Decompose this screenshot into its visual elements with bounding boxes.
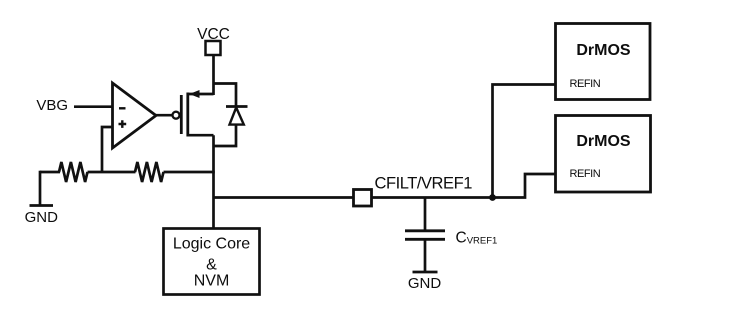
svg-text:NVM: NVM bbox=[194, 273, 230, 290]
svg-text:&: & bbox=[206, 257, 217, 274]
transistor Q1 source arrow bbox=[189, 90, 199, 98]
svg-text:Logic Core: Logic Core bbox=[173, 236, 250, 253]
wire CFILT pin to junction bbox=[372, 196, 493, 199]
svg-text:GND: GND bbox=[408, 275, 442, 292]
wire capacitor to ground bbox=[424, 239, 427, 271]
wire left end down to ground bbox=[39, 171, 42, 206]
resistor R2 bbox=[135, 162, 164, 182]
op-amp plus sign bbox=[119, 120, 127, 128]
wire R2 to drain node bbox=[164, 171, 215, 174]
op-amp minus sign bbox=[119, 107, 126, 109]
svg-text:DrMOS: DrMOS bbox=[576, 133, 631, 150]
svg-text:GND: GND bbox=[25, 209, 59, 226]
transistor Q1 gate bar bbox=[180, 95, 183, 134]
capacitor CVREF1 top plate bbox=[405, 229, 445, 232]
DrMOS box 2 bbox=[556, 116, 651, 193]
op-amp U1 triangle bbox=[113, 83, 157, 148]
wire VBG to op-amp inverting input bbox=[74, 105, 113, 108]
wire source node to diode cathode branch bbox=[214, 84, 237, 108]
DrMOS box 1 bbox=[556, 24, 651, 100]
wire op-amp output to gate bubble bbox=[155, 114, 172, 117]
transistor Q1 channel bar bbox=[186, 93, 189, 137]
wire R1 to R2 (feedback node) bbox=[88, 171, 136, 174]
capacitor CVREF1 bottom plate bbox=[405, 238, 445, 241]
wire drain node down to Logic Core box bbox=[212, 135, 215, 229]
svg-text:CFILT/VREF1: CFILT/VREF1 bbox=[375, 175, 473, 193]
diode D1 cathode bar bbox=[226, 105, 248, 108]
wire diode anode to drain node bbox=[214, 125, 237, 146]
wire op-amp non-inverting input to feedback node bbox=[102, 127, 113, 172]
svg-text:VBG: VBG bbox=[36, 97, 68, 114]
CFILT/VREF1 pin pad bbox=[354, 190, 372, 207]
wire VREF1 net down to capacitor bbox=[424, 198, 427, 231]
ground bar (capacitor) bbox=[413, 271, 438, 274]
svg-text:REFIN: REFIN bbox=[570, 78, 601, 90]
junction dot VREF1 net bbox=[489, 194, 496, 201]
wire drain node to CFILT pin bbox=[214, 196, 354, 199]
transistor Q1 gate bubble bbox=[173, 112, 180, 119]
wire feedback node left segment bbox=[40, 171, 60, 174]
wire VCC pad to PMOS source node bbox=[212, 55, 215, 95]
diode D1 body triangle bbox=[230, 108, 244, 125]
Logic Core and NVM box bbox=[164, 229, 260, 295]
wire junction to DrMOS 2 REFIN bbox=[493, 174, 556, 198]
ground bar (left) bbox=[30, 204, 54, 207]
VCC pin pad bbox=[206, 41, 221, 55]
svg-text:REFIN: REFIN bbox=[570, 168, 601, 180]
transistor Q1 source lead bbox=[188, 93, 214, 96]
svg-text:DrMOS: DrMOS bbox=[576, 42, 631, 59]
resistor R1 bbox=[59, 162, 88, 182]
wire junction up to DrMOS 1 REFIN bbox=[493, 85, 556, 198]
transistor Q1 drain lead bbox=[188, 134, 214, 137]
